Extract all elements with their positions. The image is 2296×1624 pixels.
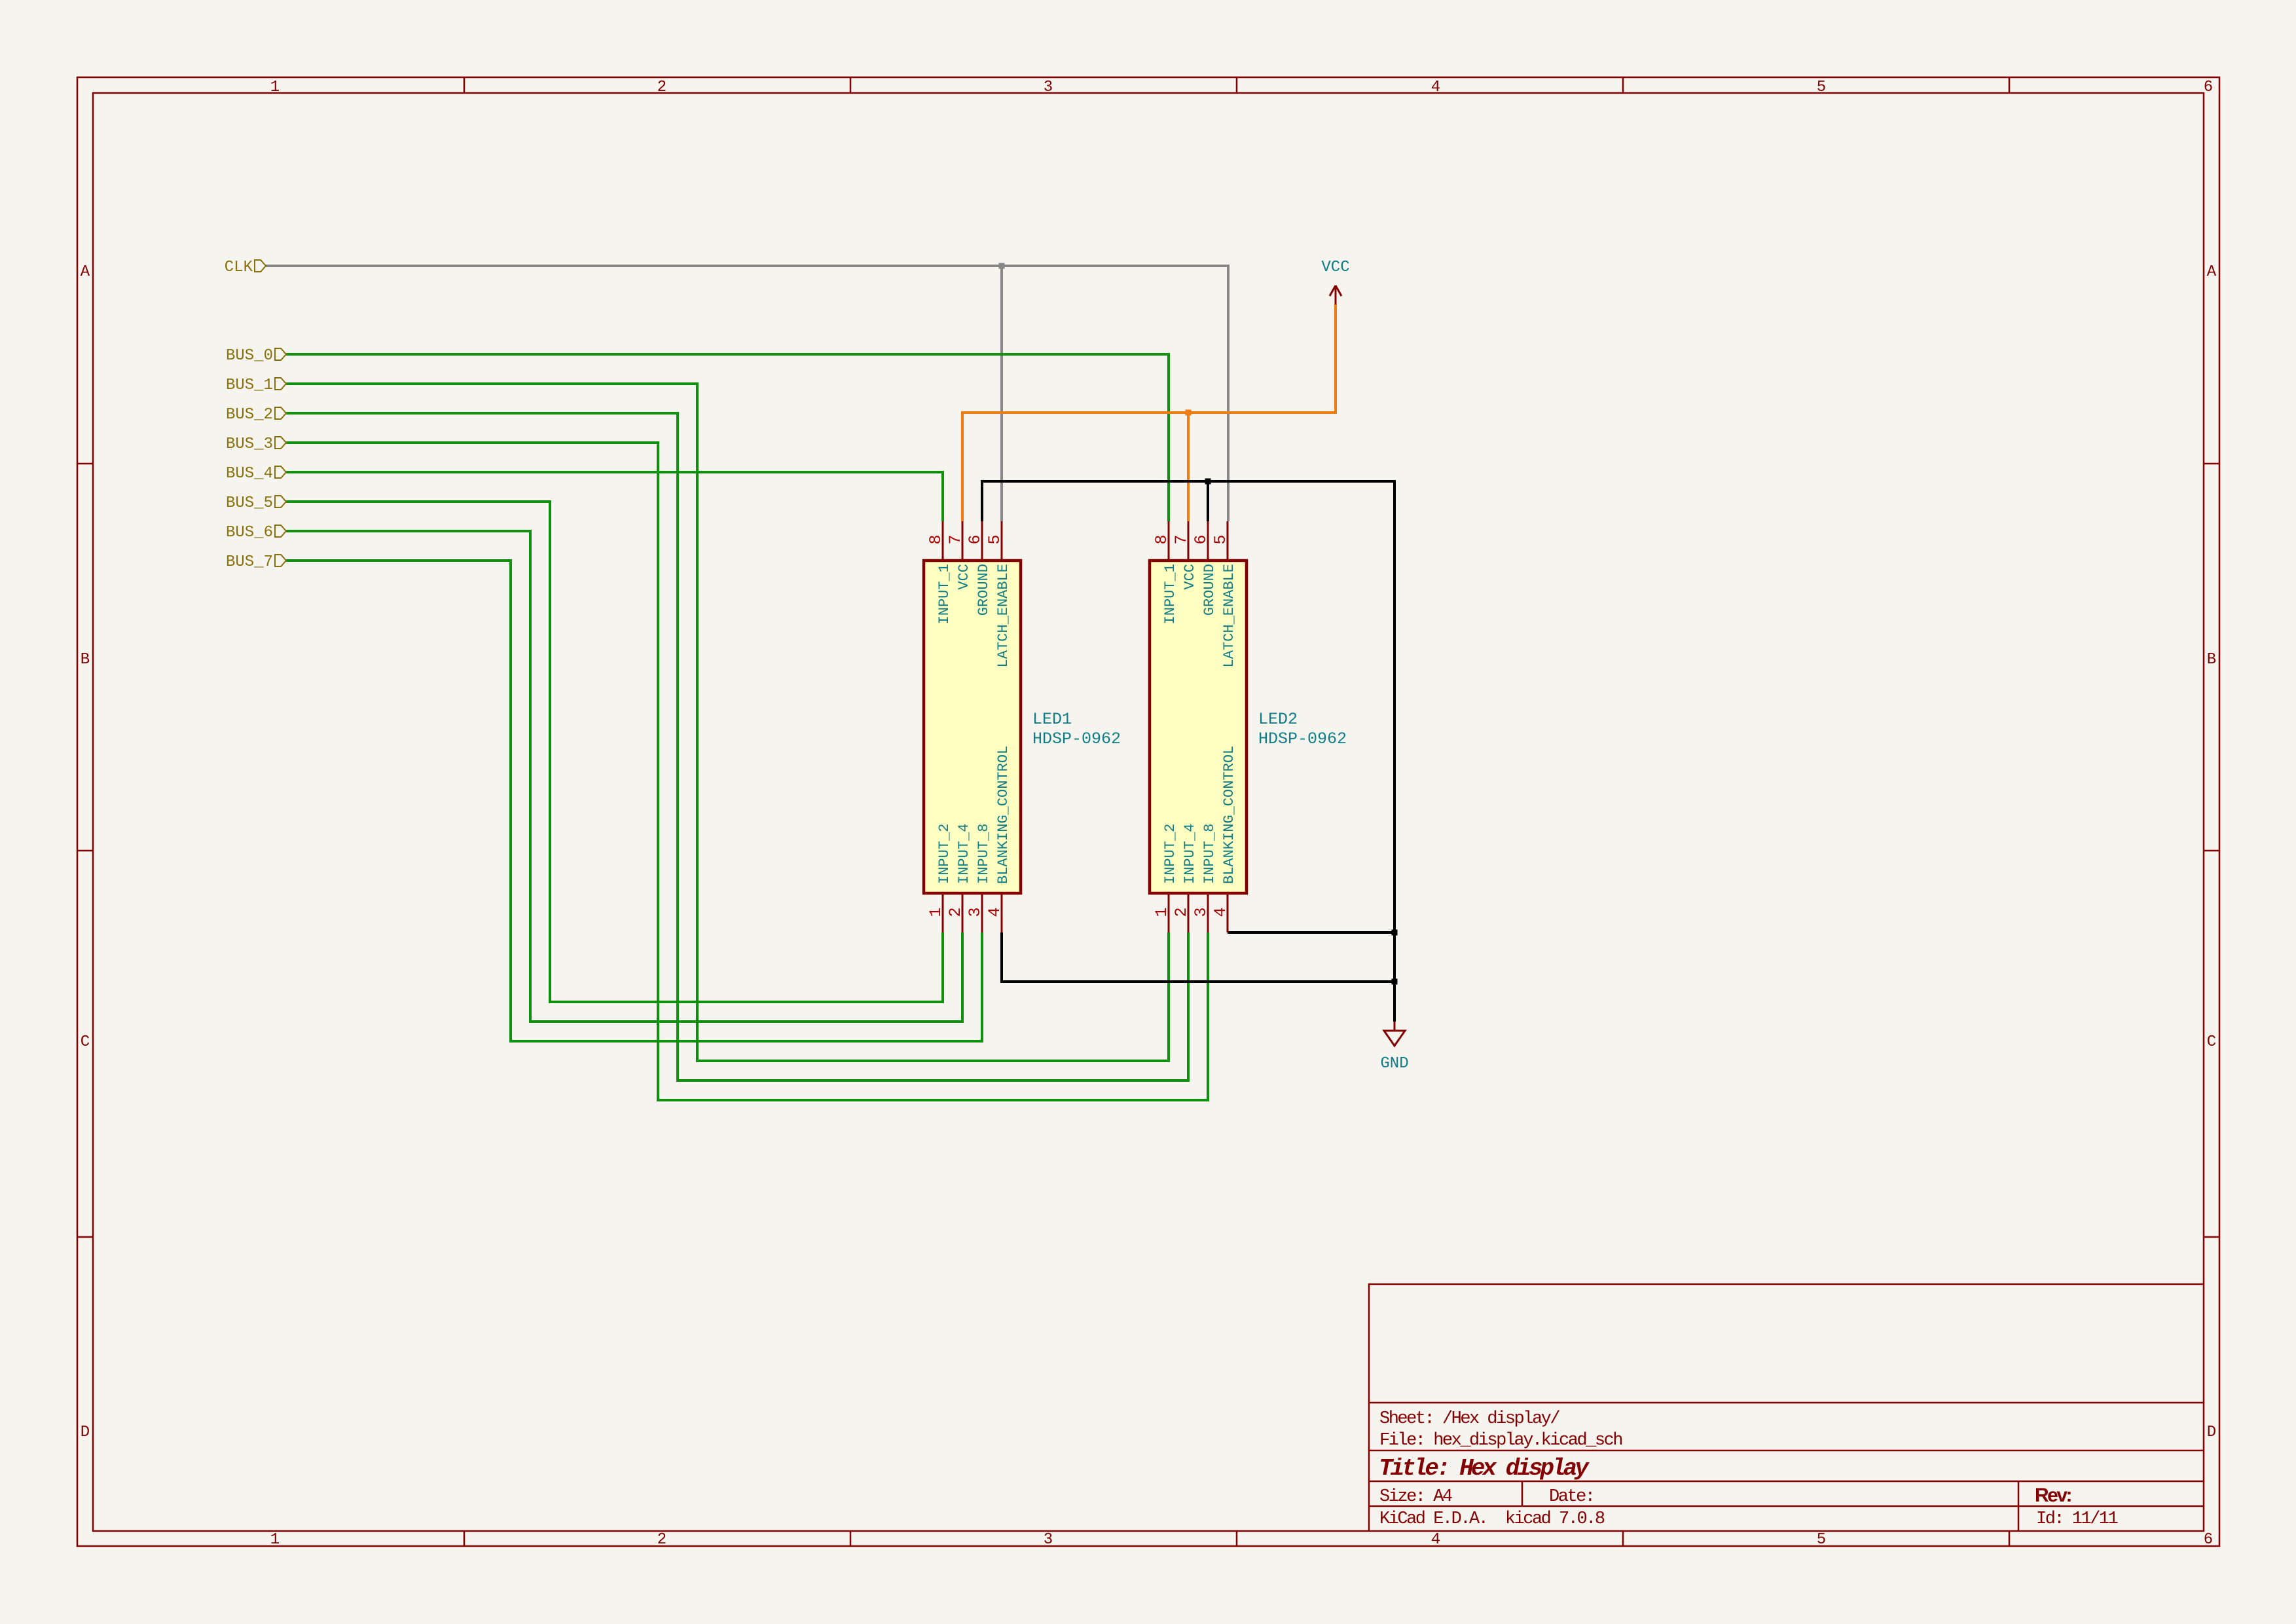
title block divider Size/Date	[1522, 1481, 1523, 1506]
svg-text:8: 8	[1152, 534, 1171, 544]
title block divider below Size row	[1369, 1505, 2204, 1507]
svg-text:3: 3	[1044, 79, 1053, 96]
hierarchical label CLK shape	[255, 260, 266, 272]
svg-text:BUS_7: BUS_7	[226, 553, 273, 571]
svg-text:B: B	[81, 651, 90, 669]
svg-text:GROUND: GROUND	[1201, 564, 1218, 616]
svg-text:INPUT_1: INPUT_1	[1162, 564, 1178, 624]
svg-text:INPUT_8: INPUT_8	[975, 824, 992, 884]
svg-text:A: A	[81, 263, 90, 281]
svg-text:INPUT_4: INPUT_4	[956, 824, 972, 884]
svg-text:8: 8	[926, 534, 945, 544]
junction GND at LED2 pin 6	[1205, 479, 1211, 485]
svg-text:5: 5	[1817, 1531, 1826, 1549]
power symbol VCC	[1330, 286, 1341, 304]
svg-text:BUS_6: BUS_6	[226, 524, 273, 542]
wire GND net (black) LED1 pin 6 across to down bus	[982, 481, 1394, 1022]
svg-text:2: 2	[1172, 907, 1191, 917]
svg-text:4: 4	[985, 907, 1004, 917]
frame column tick 4/5 top	[1622, 77, 1624, 93]
LED1 pin 8 INPUT_1	[942, 521, 944, 561]
svg-text:VCC: VCC	[1321, 259, 1349, 276]
frame row tick B/C right	[2204, 850, 2219, 852]
LED1 pin 2 INPUT_4	[962, 893, 964, 932]
LED2 pin 4 BLANKING_CONTROL	[1227, 893, 1229, 932]
svg-text:Date:: Date:	[1549, 1487, 1594, 1507]
LED1 pin 1 INPUT_2	[942, 893, 944, 932]
svg-text:D: D	[81, 1424, 90, 1441]
wire BUS_5 to LED1 pin 1	[286, 502, 943, 1002]
frame column tick 3/4 bottom	[1236, 1531, 1238, 1546]
wire GND branch LED1 pin 4	[1002, 932, 1394, 982]
frame row tick B/C left	[77, 850, 93, 852]
hierarchical label BUS_3 shape	[275, 437, 286, 449]
svg-text:GROUND: GROUND	[975, 564, 992, 616]
frame column tick 5/6 top	[2009, 77, 2011, 93]
hierarchical label BUS_6 shape	[275, 525, 286, 537]
LED2 body	[1150, 561, 1247, 893]
svg-text:6: 6	[2204, 1531, 2213, 1549]
svg-text:INPUT_2: INPUT_2	[936, 824, 953, 884]
svg-text:2: 2	[946, 907, 965, 917]
svg-text:File: hex_display.kicad_sch: File: hex_display.kicad_sch	[1379, 1431, 1622, 1450]
svg-text:4: 4	[1431, 1531, 1440, 1549]
junction VCC at LED2 pin 7	[1186, 410, 1192, 416]
svg-text:BLANKING_CONTROL: BLANKING_CONTROL	[1221, 746, 1237, 884]
svg-text:LED2: LED2	[1258, 710, 1298, 729]
svg-text:D: D	[2207, 1424, 2216, 1441]
svg-text:C: C	[81, 1033, 90, 1051]
hierarchical label BUS_4 shape	[275, 466, 286, 478]
hierarchical label BUS_0 shape	[275, 348, 286, 360]
junction CLK at LED1 pin 5	[999, 263, 1005, 269]
svg-text:INPUT_1: INPUT_1	[936, 564, 953, 624]
svg-text:2: 2	[657, 79, 666, 96]
svg-text:3: 3	[1192, 907, 1211, 917]
frame column tick 5/6 bottom	[2009, 1531, 2011, 1546]
wire BUS_2 to LED2 pin 2	[286, 413, 1188, 1080]
svg-text:4: 4	[1211, 907, 1230, 917]
LED2 pin 2 INPUT_4	[1188, 893, 1190, 932]
svg-text:5: 5	[985, 534, 1004, 544]
svg-text:INPUT_4: INPUT_4	[1182, 824, 1198, 884]
svg-text:6: 6	[1192, 534, 1211, 544]
svg-text:C: C	[2207, 1033, 2216, 1051]
hierarchical label BUS_7 shape	[275, 555, 286, 566]
hierarchical label BUS_2 shape	[275, 407, 286, 419]
svg-text:Size: A4: Size: A4	[1379, 1487, 1452, 1507]
wire BUS_1 to LED2 pin 1	[286, 384, 1169, 1061]
power symbol GND	[1384, 1022, 1405, 1046]
wire BUS_6 to LED1 pin 2	[286, 531, 962, 1022]
wire BUS_7 to LED1 pin 3	[286, 561, 982, 1041]
svg-text:BLANKING_CONTROL: BLANKING_CONTROL	[995, 746, 1011, 884]
IC LED1 HDSP-0962	[924, 521, 1121, 932]
frame column tick 3/4 top	[1236, 77, 1238, 93]
LED2 pin 3 INPUT_8	[1207, 893, 1209, 932]
svg-text:7: 7	[1172, 534, 1191, 544]
svg-text:Id: 11/11: Id: 11/11	[2036, 1509, 2118, 1529]
LED1 pin 4 BLANKING_CONTROL	[1001, 893, 1003, 932]
svg-text:HDSP-0962: HDSP-0962	[1032, 729, 1121, 748]
svg-text:LED1: LED1	[1032, 710, 1072, 729]
svg-text:Title: Hex display: Title: Hex display	[1379, 1455, 1590, 1482]
svg-text:BUS_3: BUS_3	[226, 435, 273, 453]
LED1 body	[924, 561, 1021, 893]
svg-text:BUS_5: BUS_5	[226, 494, 273, 512]
svg-text:CLK: CLK	[225, 259, 253, 276]
svg-text:2: 2	[657, 1531, 666, 1549]
LED2 pin 8 INPUT_1	[1168, 521, 1170, 561]
wire BUS_0 to LED2 pin 8	[286, 354, 1169, 521]
wire CLK branch to LED1 pin 5	[1000, 266, 1003, 521]
LED1 pin 3 INPUT_8	[981, 893, 983, 932]
svg-text:LATCH_ENABLE: LATCH_ENABLE	[995, 564, 1011, 667]
svg-text:4: 4	[1431, 79, 1440, 96]
frame column tick 2/3 bottom	[850, 1531, 852, 1546]
wire GND branch LED2 pin 4	[1228, 931, 1394, 934]
svg-text:BUS_0: BUS_0	[226, 347, 273, 365]
svg-text:5: 5	[1817, 79, 1826, 96]
wire BUS_3 to LED2 pin 3	[286, 443, 1208, 1100]
svg-text:INPUT_8: INPUT_8	[1201, 824, 1218, 884]
wire VCC net (orange) LED1 pin 7 to VCC symbol	[962, 304, 1336, 521]
frame row tick A/B right	[2204, 463, 2219, 465]
wire BUS_4 to LED1 pin 8	[286, 472, 943, 521]
wire VCC branch to LED2 pin 7	[1187, 413, 1190, 521]
frame column tick 1/2 top	[464, 77, 465, 93]
svg-text:Rev:: Rev:	[2035, 1485, 2071, 1506]
svg-text:B: B	[2207, 651, 2216, 669]
svg-text:LATCH_ENABLE: LATCH_ENABLE	[1221, 564, 1237, 667]
LED1 pin 6 GROUND	[981, 521, 983, 561]
svg-text:VCC: VCC	[956, 564, 972, 590]
title block divider Rev column	[2018, 1481, 2020, 1531]
svg-text:HDSP-0962: HDSP-0962	[1258, 729, 1347, 748]
svg-text:Sheet: /Hex display/: Sheet: /Hex display/	[1379, 1409, 1559, 1429]
svg-text:1: 1	[926, 907, 945, 917]
svg-text:BUS_4: BUS_4	[226, 465, 273, 483]
junction GND at LED2 pin 4 wire	[1392, 930, 1398, 936]
svg-text:BUS_1: BUS_1	[226, 377, 273, 394]
junction GND at LED1 pin 4 wire	[1392, 979, 1398, 985]
svg-text:A: A	[2207, 263, 2217, 281]
svg-text:1: 1	[1152, 907, 1171, 917]
title block outline	[1369, 1284, 2204, 1531]
svg-text:3: 3	[1044, 1531, 1053, 1549]
LED2 pin 1 INPUT_2	[1168, 893, 1170, 932]
svg-text:6: 6	[2204, 79, 2213, 96]
wire CLK net (gray) from label to LED2 pin 5	[266, 266, 1228, 521]
svg-text:1: 1	[270, 79, 280, 96]
hierarchical label BUS_1 shape	[275, 378, 286, 390]
svg-text:7: 7	[946, 534, 965, 544]
title block divider above Title row	[1369, 1450, 2204, 1452]
svg-text:VCC: VCC	[1182, 564, 1198, 590]
title block divider above Sheet row	[1369, 1402, 2204, 1404]
wire GND branch to LED2 pin 6	[1207, 481, 1209, 521]
svg-text:BUS_2: BUS_2	[226, 406, 273, 424]
frame row tick C/D left	[77, 1236, 93, 1238]
LED2 pin 6 GROUND	[1207, 521, 1209, 561]
hierarchical label BUS_5 shape	[275, 496, 286, 507]
LED1 pin 5 LATCH_ENABLE	[1001, 521, 1003, 561]
LED2 pin 7 VCC	[1188, 521, 1190, 561]
svg-text:KiCad E.D.A. kicad 7.0.8: KiCad E.D.A. kicad 7.0.8	[1379, 1509, 1605, 1529]
svg-text:INPUT_2: INPUT_2	[1162, 824, 1178, 884]
svg-text:6: 6	[966, 534, 985, 544]
svg-text:3: 3	[966, 907, 985, 917]
IC LED2 HDSP-0962	[1150, 521, 1347, 932]
svg-text:1: 1	[270, 1531, 280, 1549]
svg-text:5: 5	[1211, 534, 1230, 544]
LED1 pin 7 VCC	[962, 521, 964, 561]
LED2 pin 5 LATCH_ENABLE	[1227, 521, 1229, 561]
frame column tick 4/5 bottom	[1622, 1531, 1624, 1546]
frame row tick A/B left	[77, 463, 93, 465]
frame column tick 2/3 top	[850, 77, 852, 93]
frame column tick 1/2 bottom	[464, 1531, 465, 1546]
title block divider below Title row	[1369, 1481, 2204, 1483]
frame row tick C/D right	[2204, 1236, 2219, 1238]
svg-text:GND: GND	[1380, 1055, 1408, 1073]
